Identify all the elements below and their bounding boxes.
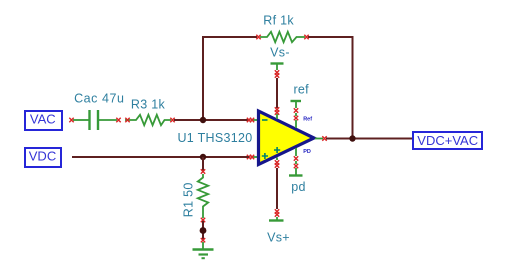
plus mark inner (274, 147, 280, 153)
wire output (326, 138, 412, 140)
svg-text:VAC: VAC (30, 112, 56, 127)
svg-text:R1 50: R1 50 (182, 182, 196, 217)
pd pin of op-amp (294, 148, 298, 161)
svg-text:R3 1k: R3 1k (131, 97, 166, 111)
svg-text:VDC: VDC (29, 149, 56, 164)
svg-text:PD: PD (303, 149, 311, 155)
node junction output (349, 135, 355, 141)
Vs+ pin of op-amp (275, 158, 279, 168)
plus mark noninverting (262, 153, 268, 159)
capacitor Cac (69, 92, 124, 130)
svg-text:pd: pd (291, 180, 306, 194)
wire feedback top right segment (308, 36, 353, 38)
resistor Rf (256, 14, 308, 43)
node junction R1/ground (200, 227, 207, 234)
ref connector (291, 82, 310, 112)
svg-text:Vs-: Vs- (270, 46, 290, 60)
svg-text:VDC+VAC: VDC+VAC (417, 133, 478, 148)
svg-text:Ref: Ref (303, 117, 312, 123)
VDC source label (25, 148, 61, 167)
svg-text:Rf 1k: Rf 1k (263, 14, 294, 28)
minus mark (262, 119, 268, 121)
wire inverting input (174, 119, 249, 121)
wire feedback left vertical (202, 37, 204, 120)
op-amp U1 (177, 111, 314, 165)
op-amp input pin leads (247, 118, 258, 159)
wire VDC to noninverting input (72, 156, 249, 158)
resistor R1 (182, 169, 209, 222)
wire Vs- to op-amp (276, 78, 278, 108)
op-amp output pin (315, 136, 327, 140)
svg-text:Cac 47u: Cac 47u (74, 92, 124, 106)
ground (193, 238, 214, 258)
wire R1 to ground (202, 221, 204, 240)
node junction noninverting input (200, 154, 206, 160)
pd connector (289, 161, 306, 194)
wire feedback right vertical (352, 36, 354, 139)
Vs+ supply connector (267, 209, 290, 244)
op-amp Vs- pin (275, 107, 279, 119)
VAC source label (25, 111, 62, 130)
wire feedback top left segment (202, 36, 257, 38)
Vs- supply connector (270, 46, 290, 78)
node junction inverting input (200, 117, 206, 123)
op-amp ref pin (294, 113, 298, 128)
svg-text:U1 THS3120: U1 THS3120 (177, 131, 252, 145)
wire junction down to R1 (202, 157, 204, 171)
VDC+VAC output label (413, 132, 482, 149)
resistor R3 (125, 97, 175, 125)
svg-text:ref: ref (293, 82, 309, 96)
wire Vs+ (276, 168, 278, 209)
svg-text:Vs+: Vs+ (267, 230, 290, 244)
